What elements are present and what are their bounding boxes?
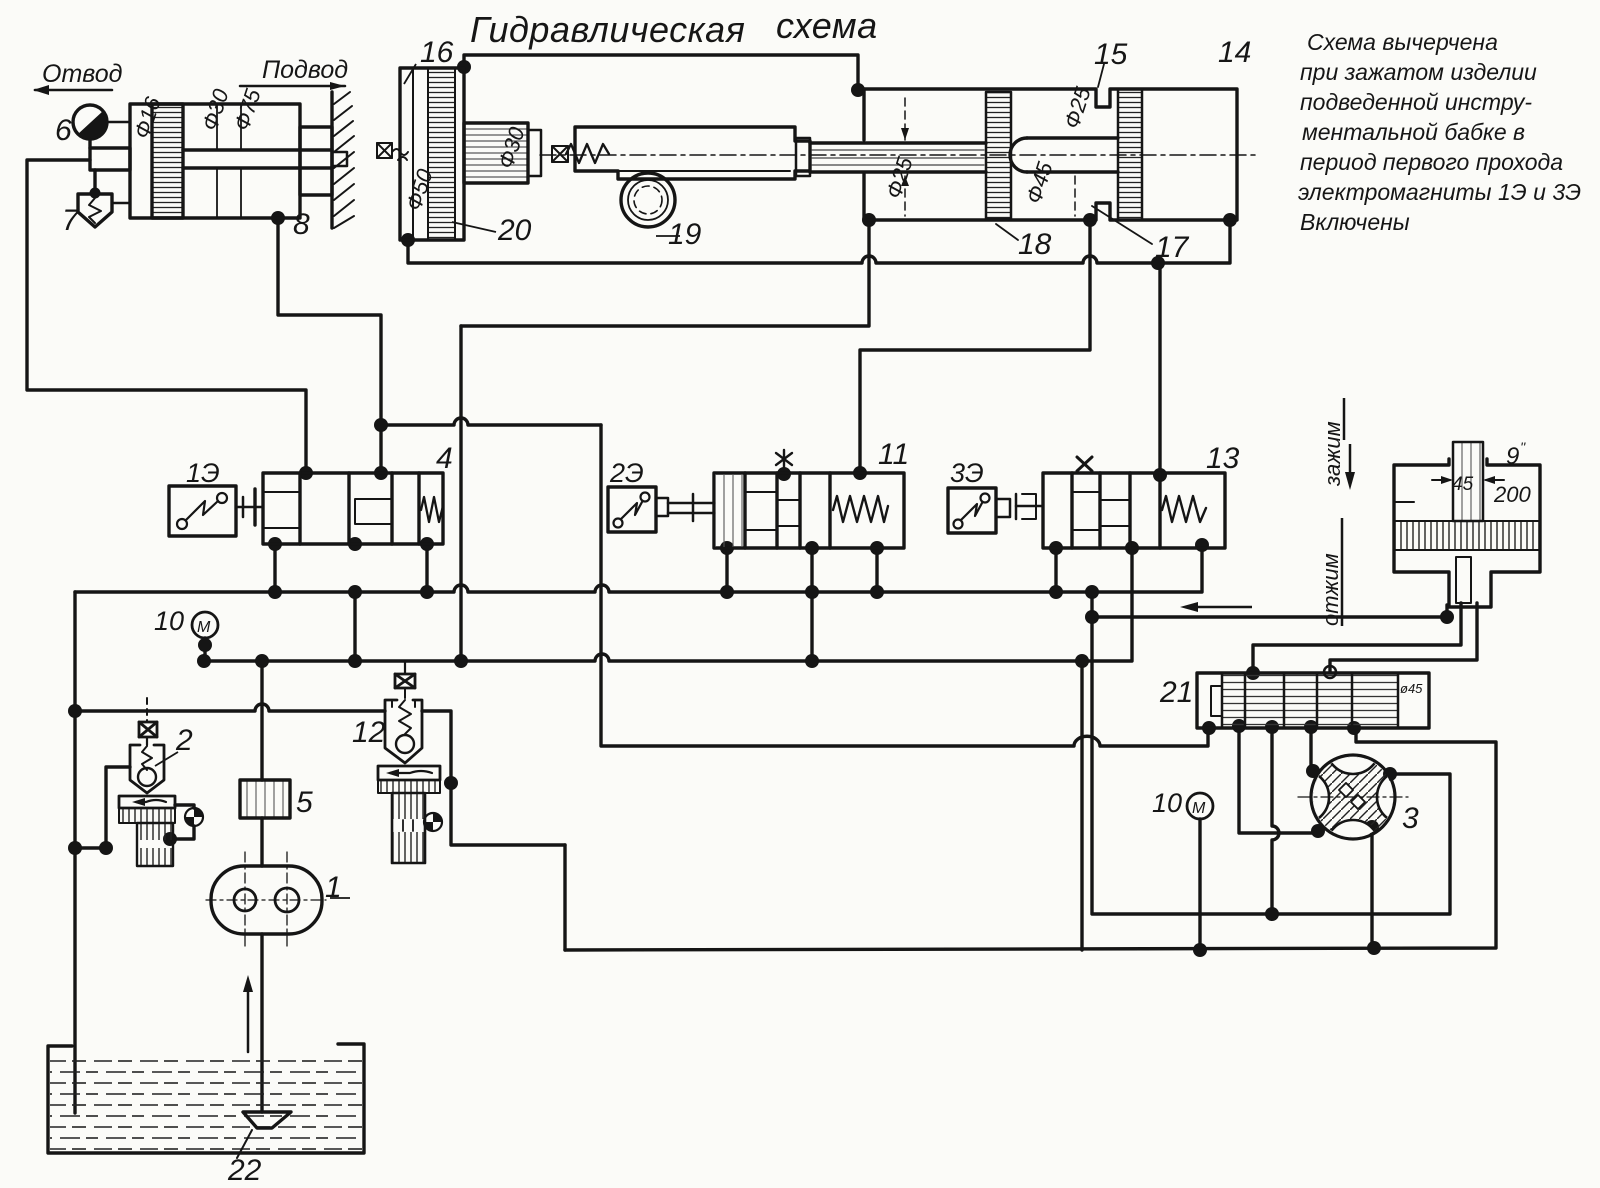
svg-text:3Э: 3Э <box>950 458 984 488</box>
svg-text:13: 13 <box>1206 442 1240 475</box>
svg-text:14: 14 <box>1218 36 1251 69</box>
svg-text:'': '' <box>1520 439 1527 455</box>
svg-text:зажим: зажим <box>1320 421 1345 487</box>
svg-text:22: 22 <box>227 1154 262 1187</box>
svg-text:8: 8 <box>293 208 310 241</box>
svg-text:ментальной бабке в: ментальной бабке в <box>1302 119 1525 145</box>
svg-text:5: 5 <box>296 786 313 819</box>
svg-text:M: M <box>1192 800 1206 817</box>
svg-text:Гидравлическая: Гидравлическая <box>470 9 745 50</box>
svg-text:21: 21 <box>1159 676 1193 709</box>
svg-text:4: 4 <box>436 442 453 475</box>
svg-text:ø45: ø45 <box>1400 681 1423 696</box>
svg-text:16: 16 <box>420 36 454 69</box>
svg-text:15: 15 <box>1094 38 1128 71</box>
svg-text:Подвод: Подвод <box>262 56 348 84</box>
svg-text:при зажатом изделии: при зажатом изделии <box>1300 59 1537 85</box>
svg-text:10: 10 <box>1152 788 1182 818</box>
svg-text:электромагниты 1Э и 3Э: электромагниты 1Э и 3Э <box>1298 179 1581 205</box>
svg-text:отжим: отжим <box>1318 553 1343 626</box>
svg-text:M: M <box>197 619 211 636</box>
svg-text:3: 3 <box>1402 802 1419 835</box>
svg-text:9: 9 <box>1506 443 1519 470</box>
svg-text:1: 1 <box>325 871 342 904</box>
svg-text:10: 10 <box>154 606 184 636</box>
svg-text:17: 17 <box>1155 231 1190 264</box>
svg-text:45: 45 <box>1452 474 1474 495</box>
svg-text:2Э: 2Э <box>609 458 644 488</box>
svg-text:19: 19 <box>668 218 702 251</box>
svg-text:Схема вычерчена: Схема вычерчена <box>1307 29 1498 55</box>
svg-text:12: 12 <box>352 716 386 749</box>
svg-text:Отвод: Отвод <box>42 60 123 88</box>
svg-text:20: 20 <box>497 214 532 247</box>
svg-text:1Э: 1Э <box>186 458 220 488</box>
svg-text:Ф25: Ф25 <box>881 153 918 201</box>
svg-text:18: 18 <box>1018 228 1052 261</box>
svg-text:7: 7 <box>62 204 80 237</box>
svg-text:Ф45: Ф45 <box>1021 158 1058 206</box>
svg-text:11: 11 <box>878 438 909 471</box>
svg-text:период первого прохода: период первого прохода <box>1300 149 1563 175</box>
svg-text:200: 200 <box>1493 482 1531 507</box>
svg-text:подведенной инстру-: подведенной инстру- <box>1300 89 1532 115</box>
svg-text:схема: схема <box>776 5 878 46</box>
svg-text:6: 6 <box>55 114 72 147</box>
svg-text:Ф75: Ф75 <box>229 85 266 133</box>
svg-text:Включены: Включены <box>1300 209 1410 235</box>
